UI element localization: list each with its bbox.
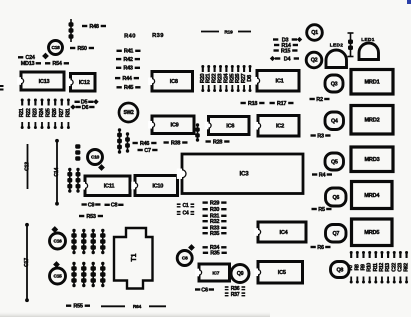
svg-text:R27: R27 [59,108,65,117]
svg-text:C8: C8 [111,203,118,209]
capacitor C4 [177,211,194,217]
resistor R38 [164,140,188,146]
svg-text:C9: C9 [88,202,95,208]
svg-text:C15: C15 [54,274,63,280]
scan artifact [407,0,411,4]
resistor R42 [116,57,140,63]
resistor R35 [203,231,227,237]
resistor R54 [45,61,69,67]
svg-text:R12: R12 [379,263,385,272]
capacitor C13 [25,144,31,189]
svg-text:Q2: Q2 [311,58,318,64]
resistor R23 (left bank) [32,99,38,130]
svg-text:R31: R31 [65,108,71,117]
resistor R15 [274,48,298,54]
capacitor C6 [195,287,214,293]
resistor R25 (top bank) [229,65,235,92]
resistor R50 [70,46,94,52]
svg-text:R45: R45 [124,85,133,91]
svg-text:IC11: IC11 [104,184,115,190]
diode D7 [348,33,354,57]
svg-text:C16: C16 [54,239,63,245]
IC IC13 [17,72,64,90]
IC IC4 [254,222,306,242]
svg-text:R8: R8 [354,264,360,270]
svg-text:R24: R24 [39,107,45,117]
svg-text:R46: R46 [140,141,149,147]
part R61 [100,262,105,287]
svg-text:R9: R9 [361,264,367,270]
svg-text:R22: R22 [26,108,32,117]
diode D6 [70,104,94,110]
resistor R22 (left bank) [26,99,32,130]
LED LED2 [326,50,347,68]
resistor R24 (top bank) [223,65,229,92]
svg-text:R17: R17 [277,101,286,107]
svg-text:R44: R44 [122,76,132,82]
svg-text:IC9: IC9 [171,123,179,129]
capacitor C16 [50,226,66,249]
transistor Q1 [307,25,323,41]
resistor R11 (bottom bank) [373,251,379,284]
svg-text:R7: R7 [348,264,354,270]
resistor R30 [203,207,227,213]
capacitor C5 [117,128,122,153]
svg-text:R11: R11 [373,263,379,272]
svg-text:R15: R15 [281,48,290,54]
LED LED1 [359,43,379,60]
part C30 [71,229,76,254]
resistor C23 (bottom bank) [397,251,403,284]
capacitor C17 [24,223,30,302]
svg-text:R18: R18 [248,101,257,107]
svg-text:R41: R41 [124,49,133,55]
photodetector MRD3 [351,147,393,172]
diode D5 [75,99,99,105]
svg-text:R5: R5 [318,207,325,213]
IC IC6 [205,117,249,135]
resistor R36 [225,286,245,292]
left edge mark [0,85,4,87]
resistor R51 [75,144,80,160]
resistor R21 (top bank) [206,65,212,92]
resistor R25 (left bank) [46,99,52,130]
svg-text:T1: T1 [131,253,138,261]
resistor R31 [203,214,227,220]
resistor R28 [206,139,230,145]
diode MD13 [21,61,41,67]
svg-text:R62: R62 [404,263,410,272]
svg-text:R48: R48 [89,24,98,30]
resistor R41 [117,49,141,55]
resistor R55 [66,304,90,310]
IC IC8 [148,72,192,92]
resistor R7 (bottom bank) [348,251,354,284]
svg-text:MD13: MD13 [21,61,35,67]
IC IC5 [254,262,302,284]
part C31 [71,262,76,287]
part D14 [91,262,96,287]
capacitor C14 [54,139,60,206]
resistor R13 (bottom bank) [385,251,391,284]
transistor Q6 [326,188,347,206]
scan shading [0,311,270,317]
svg-text:IC7: IC7 [212,270,219,276]
capacitor C10 [88,150,105,171]
svg-text:R42: R42 [123,57,132,63]
svg-text:R35: R35 [210,251,219,257]
svg-text:C8: C8 [182,256,188,262]
resistor R32 [203,219,227,225]
svg-text:IC3: IC3 [240,171,250,178]
svg-text:R30: R30 [210,207,219,213]
svg-text:C1: C1 [182,203,188,209]
svg-text:Q9: Q9 [237,271,244,277]
svg-text:R39: R39 [152,33,164,39]
transistor Q4 [325,112,344,130]
svg-text:R38: R38 [171,140,180,146]
svg-text:R6: R6 [317,245,324,251]
resistor R29 [203,200,227,206]
svg-text:R29: R29 [210,200,219,206]
resistor R27 (left bank) [59,99,65,130]
transistor Q2 [306,52,322,68]
IC IC1 [253,71,299,92]
resistor R31 (left bank) [65,99,71,130]
resistor C22 (bottom bank) [391,251,397,284]
resistor R21 (left bank) [19,99,25,130]
svg-text:D6: D6 [82,105,89,111]
IC IC2 [254,116,299,137]
svg-text:C10: C10 [91,155,100,161]
svg-text:C6: C6 [201,287,208,293]
svg-text:R10: R10 [367,263,373,272]
capacitor C8 [177,244,195,265]
resistor R35 [203,251,227,257]
resistor R10 (bottom bank) [367,251,373,284]
resistor R34 [203,245,227,251]
IC IC7 [195,264,229,281]
svg-text:MRD3: MRD3 [364,157,379,163]
svg-text:Q1: Q1 [311,30,318,36]
svg-text:Q8: Q8 [336,267,343,273]
svg-text:MRD5: MRD5 [364,230,379,236]
transistor Q9 [231,265,249,283]
svg-text:Q3: Q3 [331,81,338,87]
transistor Q3 [325,75,343,92]
svg-text:Q4: Q4 [331,119,338,125]
resistor R9 (bottom bank) [361,251,367,284]
diode D3 [273,37,302,43]
diode D4 [270,56,299,62]
svg-text:R40: R40 [124,34,136,40]
svg-text:MRD1: MRD1 [364,80,379,86]
svg-text:R19: R19 [224,29,233,35]
switch SW2 [119,103,138,122]
resistor R6 [311,245,331,251]
svg-text:Q6: Q6 [332,195,339,201]
svg-text:R3: R3 [317,133,324,139]
svg-text:C22: C22 [391,263,397,272]
svg-text:C17: C17 [24,258,30,267]
resistor R4 [312,172,332,178]
resistor R43 [116,66,140,72]
svg-text:IC4: IC4 [280,230,289,236]
photodetector MRD1 [351,70,393,95]
resistor R37 label [225,292,245,298]
svg-text:R55: R55 [73,304,82,310]
resistor R5 [312,207,332,213]
svg-text:R36: R36 [231,286,240,292]
part D11 [81,229,86,254]
resistor R14 [274,43,298,49]
svg-text:IC10: IC10 [152,183,163,189]
svg-text:R53: R53 [86,214,95,220]
resistor R18 [241,101,265,107]
part D12 [91,229,96,254]
svg-text:IC1: IC1 [276,79,284,85]
resistor R53 [79,214,103,220]
resistor R62 (bottom bank) [404,251,410,284]
IC IC9 [148,116,194,134]
capacitor C1 [177,203,194,209]
resistor R44 [115,76,139,82]
svg-text:R32: R32 [210,219,219,225]
resistor R26 (top bank) [235,65,241,92]
resistor R22 (top bank) [212,65,218,92]
svg-text:C14: C14 [54,168,60,177]
svg-text:C4: C4 [182,211,188,217]
IC IC10 [131,176,177,196]
resistor R19 [201,29,251,35]
resistor R47 [69,19,74,42]
svg-text:C23: C23 [397,263,403,272]
resistor D8 (top bank) [247,65,253,92]
svg-text:IC12: IC12 [79,80,90,86]
capacitor C15 [50,261,66,284]
resistor R45 [117,85,141,91]
capacitor C12 [67,168,72,193]
svg-text:R50: R50 [77,46,86,52]
resistor R48 [82,24,106,30]
capacitor C9 [82,202,101,208]
svg-text:IC2: IC2 [276,124,284,130]
svg-text:R21: R21 [19,108,25,117]
resistor R20 (top bank) [200,65,206,92]
resistor R17 [270,101,294,107]
photodetector MRD5 [352,219,393,246]
svg-text:R26: R26 [52,108,58,117]
resistor R26 (left bank) [52,99,58,130]
resistor R52 [76,168,81,193]
IC IC12 [67,74,95,92]
svg-text:C7: C7 [144,148,151,154]
resistor R33 [203,226,227,232]
svg-text:R23: R23 [32,108,38,117]
transistor Q8 [331,262,350,278]
svg-text:R13: R13 [385,263,391,272]
svg-text:R54: R54 [52,61,62,67]
transformer T1 [114,228,153,289]
capacitor C18 [42,41,62,60]
svg-text:IC6: IC6 [226,123,234,129]
IC IC11 [81,176,130,196]
transistor Q5 [325,153,344,170]
resistor R24 (left bank) [39,99,45,130]
resistor R3 [311,133,331,139]
part D13 [81,262,86,287]
svg-text:R64: R64 [133,304,142,310]
svg-text:R28: R28 [213,139,222,145]
svg-text:R37: R37 [231,292,240,298]
svg-text:R2: R2 [316,97,323,103]
photodetector MRD4 [352,182,393,209]
svg-text:Q7: Q7 [332,231,339,237]
resistor R64 [101,304,166,310]
resistor R2 [310,97,330,103]
resistor R46 [133,141,157,147]
svg-text:IC5: IC5 [278,270,286,276]
svg-text:LED2: LED2 [330,43,343,49]
svg-text:R43: R43 [123,66,132,72]
capacitor C8 label [105,203,124,209]
diode D1 [125,132,130,152]
resistor R12 (bottom bank) [379,251,385,284]
svg-text:R25: R25 [46,108,52,117]
svg-text:Q5: Q5 [331,159,338,165]
svg-text:IC13: IC13 [39,79,50,85]
svg-text:IC8: IC8 [170,79,178,85]
capacitor C7 [138,148,158,154]
IC IC3 [177,154,303,194]
transistor Q7 [326,225,347,243]
svg-text:R35: R35 [210,231,219,237]
svg-text:MRD4: MRD4 [364,193,380,199]
part R60 [100,229,105,254]
resistor R37 [195,123,200,141]
resistor R8 (bottom bank) [354,251,360,284]
svg-text:C13: C13 [25,162,31,171]
svg-text:C18: C18 [52,45,61,51]
svg-text:MRD2: MRD2 [364,118,379,124]
resistor R23 (top bank) [218,65,224,92]
capacitor C24 [18,55,36,61]
svg-text:SW2: SW2 [124,110,134,116]
photodetector MRD2 [351,106,393,135]
resistor R27 (top bank) [241,65,247,92]
